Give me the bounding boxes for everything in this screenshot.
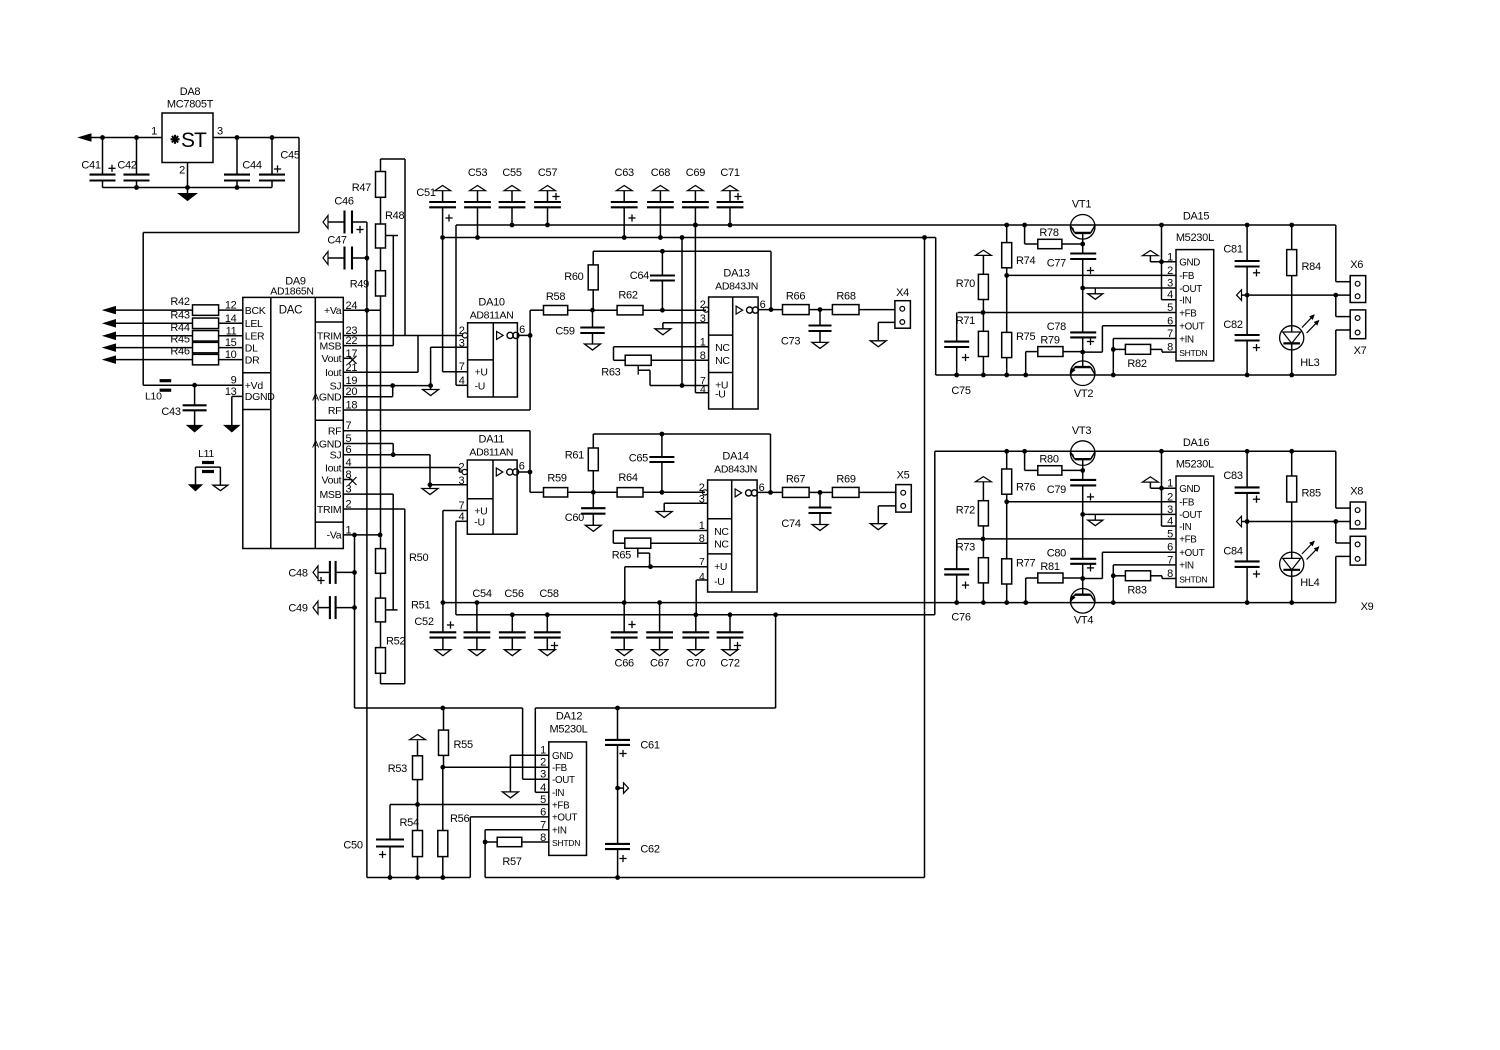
wire rail A to DA13 pin 4	[693, 223, 709, 393]
svg-text:L10: L10	[145, 391, 162, 403]
svg-text:LER: LER	[245, 331, 265, 343]
svg-text:AGND: AGND	[312, 392, 342, 404]
svg-text:SHTDN: SHTDN	[552, 838, 580, 848]
svg-text:C84: C84	[1223, 545, 1242, 557]
resistor R56	[438, 767, 470, 880]
capacitor C82	[1223, 295, 1260, 377]
node R59 R61 C60	[591, 490, 596, 495]
wire R48 tap to MSB22	[386, 236, 399, 346]
wire X9 pin 2 to bottom rail	[1336, 556, 1350, 602]
svg-text:R71: R71	[956, 315, 975, 327]
capacitor C81	[1223, 223, 1260, 298]
wire DA15 bottom rail from rail B	[936, 238, 1336, 376]
svg-text:SHTDN: SHTDN	[1179, 574, 1207, 584]
svg-text:AD1865N: AD1865N	[270, 286, 313, 298]
svg-text:C71: C71	[720, 167, 739, 179]
resistor R85	[1287, 449, 1321, 552]
capacitor C58	[534, 588, 561, 656]
svg-text:C83: C83	[1223, 470, 1242, 482]
capacitor C79	[1047, 480, 1096, 559]
svg-text:C78: C78	[1047, 321, 1066, 333]
wire DA15 pin 1 GND with arrow	[1142, 251, 1176, 265]
wire DA8 pin 3 output	[213, 137, 299, 139]
svg-text:R77: R77	[1016, 557, 1035, 569]
wire DA9 Iout pin 21 to DA10	[343, 336, 418, 373]
svg-text:C55: C55	[502, 167, 521, 179]
svg-text:MC7805T: MC7805T	[167, 99, 214, 111]
svg-text:4: 4	[699, 571, 705, 583]
net arrow at C61 C62 junction	[618, 783, 629, 794]
svg-text:Iout: Iout	[325, 367, 342, 379]
capacitor C73	[781, 310, 832, 349]
wire DA12 pin4 -IN feed	[535, 708, 549, 792]
wire DA16 pin 6 +OUT path	[1083, 552, 1176, 578]
svg-text:AGND: AGND	[312, 438, 342, 450]
svg-text:M5230L: M5230L	[1176, 458, 1214, 470]
svg-text:DA12: DA12	[556, 711, 582, 723]
svg-text:R66: R66	[786, 291, 805, 303]
resistor R73	[956, 539, 989, 605]
svg-text:4: 4	[459, 375, 465, 387]
capacitor C42	[108, 135, 149, 190]
wire DA12 pin6 +OUT to left bottom rail	[367, 817, 549, 878]
svg-text:-FB: -FB	[1179, 271, 1195, 282]
wire DA9 MSB pin 3 to R51 tap	[343, 494, 393, 610]
svg-text:C73: C73	[781, 336, 800, 348]
svg-text:C42: C42	[117, 160, 136, 172]
wire +5V route from DA8 pin3 to DAC +Vd	[143, 138, 299, 386]
IC DA16 M5230L	[1167, 437, 1214, 587]
resistor R62	[593, 290, 663, 315]
svg-text:C79: C79	[1047, 484, 1066, 496]
wire DA12 pin5 +FB line	[390, 802, 549, 807]
svg-text:C67: C67	[650, 658, 669, 670]
wire DA15 pin 4 -IN from top rail	[1159, 223, 1176, 300]
transistor VT1	[1070, 199, 1095, 240]
resistor R54	[400, 805, 423, 880]
wire bottom rail right segment	[485, 842, 924, 880]
IC DA12 M5230L	[540, 711, 587, 856]
svg-text:C43: C43	[161, 406, 180, 418]
svg-text:R58: R58	[546, 291, 565, 303]
DA9 pin name DR	[245, 354, 260, 366]
svg-text:R80: R80	[1039, 453, 1058, 465]
resistor R60	[564, 251, 598, 310]
svg-text:C57: C57	[538, 167, 557, 179]
svg-text:C68: C68	[651, 167, 670, 179]
connector X9	[1350, 536, 1373, 613]
wire DA9 Iout pin 4 to DA11 pin 2	[343, 468, 464, 473]
wire feedback DA13 to R60	[593, 249, 771, 310]
svg-text:C62: C62	[640, 844, 659, 856]
svg-text:R83: R83	[1127, 584, 1146, 596]
wire DA11 output node	[517, 431, 533, 493]
resistor R49	[350, 248, 386, 296]
svg-text:C63: C63	[615, 167, 634, 179]
svg-text:-FB: -FB	[552, 763, 568, 774]
capacitor C57	[534, 167, 561, 227]
svg-text:MSB: MSB	[319, 340, 341, 352]
svg-text:4: 4	[1167, 516, 1173, 528]
capacitor C72	[717, 612, 744, 669]
wire mid line to X8 with arrow	[1237, 516, 1351, 527]
DA9 pin name TRIM 2	[317, 499, 352, 516]
DA9 pin name LER	[245, 331, 265, 343]
svg-text:HL3: HL3	[1300, 357, 1319, 369]
DA9 Vout pin 8 stub with cross	[343, 477, 356, 485]
svg-text:-U: -U	[474, 517, 484, 529]
wire -OUT rail to -Va	[355, 706, 523, 711]
wire top rail to X6 pin 1	[1336, 225, 1350, 282]
resistor R71	[956, 313, 989, 378]
node R58 R60 C59	[590, 308, 595, 313]
svg-text:R67: R67	[786, 474, 805, 486]
svg-text:C81: C81	[1223, 244, 1242, 256]
capacitor C75	[944, 313, 971, 398]
wire +U rail B upper	[443, 235, 936, 240]
wire VT3 base lead	[1080, 459, 1085, 480]
svg-text:M5230L: M5230L	[1176, 232, 1214, 244]
wire DA12 pin2 -FB line	[440, 765, 548, 770]
svg-text:GND: GND	[552, 751, 573, 762]
DA9 pin name SJ 19	[330, 375, 358, 392]
wire DA9 TRIM pin 23 to DA10 pin 2	[343, 335, 465, 337]
DA9 pin 13 number	[225, 386, 237, 398]
svg-text:4: 4	[540, 782, 546, 794]
wire top rail to X8 pin 1	[1336, 451, 1350, 508]
capacitor C61	[605, 708, 660, 790]
transistor VT2	[1070, 361, 1095, 400]
wire DA15 pin 3 -OUT line with ground	[1083, 288, 1176, 299]
capacitor C78	[1047, 321, 1096, 367]
capacitor C65	[629, 434, 675, 495]
ground DGND at DA9 pin 13	[224, 396, 243, 432]
svg-text:3: 3	[1167, 504, 1173, 516]
svg-text:3: 3	[1167, 278, 1173, 290]
svg-text:R78: R78	[1039, 227, 1058, 239]
svg-text:6: 6	[519, 461, 525, 473]
svg-text:7: 7	[1167, 554, 1173, 566]
svg-text:AD811AN: AD811AN	[470, 310, 514, 322]
svg-text:DA13: DA13	[723, 268, 749, 280]
svg-text:C80: C80	[1047, 547, 1066, 559]
svg-text:NC: NC	[715, 342, 730, 354]
resistor R84	[1287, 223, 1321, 326]
svg-text:C77: C77	[1047, 258, 1066, 270]
capacitor C68	[647, 167, 674, 240]
svg-text:R79: R79	[1040, 335, 1059, 347]
capacitor C49	[288, 596, 357, 619]
svg-text:14: 14	[225, 313, 237, 325]
svg-text:R64: R64	[618, 472, 637, 484]
svg-text:C46: C46	[334, 196, 353, 208]
svg-text:11: 11	[226, 325, 237, 337]
svg-text:1: 1	[1167, 478, 1173, 490]
wire DA9 AGND pin 20	[343, 386, 392, 397]
DA9 pin name Iout 21	[325, 362, 357, 379]
capacitor C47	[323, 235, 369, 270]
svg-text:R70: R70	[956, 278, 975, 290]
resistor R68	[820, 291, 895, 315]
svg-text:BCK: BCK	[245, 305, 266, 317]
wire rail A lower corner to DA11 pin 4	[456, 521, 467, 615]
DA9 pin name AGND 20	[312, 386, 357, 403]
wire rail A lower to DA14 pin 4	[696, 580, 707, 615]
svg-text:R74: R74	[1016, 255, 1035, 267]
capacitor C62	[605, 788, 660, 877]
connector X7	[1350, 310, 1366, 357]
svg-text:DGND: DGND	[245, 391, 275, 403]
svg-text:DR: DR	[245, 354, 260, 366]
ground at DA8 pin 2	[179, 163, 197, 201]
svg-text:R68: R68	[836, 291, 855, 303]
DA9 pin name Vout 8	[321, 469, 351, 486]
wire R47 top rail to TRIM23	[381, 159, 406, 336]
resistor R57	[485, 837, 549, 868]
svg-text:VT1: VT1	[1072, 199, 1091, 211]
svg-text:6: 6	[1167, 315, 1173, 327]
svg-text:-U: -U	[475, 381, 485, 393]
svg-text:Iout: Iout	[325, 462, 342, 474]
wire -U rail A upper	[456, 224, 1336, 226]
svg-text:+Vd: +Vd	[245, 380, 264, 392]
wire input to DA8 pin 1 with arrow	[79, 134, 162, 141]
svg-text:R48: R48	[385, 210, 404, 222]
node R67 R69 C74	[818, 490, 823, 495]
resistor R69	[820, 474, 896, 498]
wire R64 to DA14 pin 2	[662, 491, 705, 493]
op-amp DA11 AD811AN	[458, 434, 524, 535]
wire DA9 SJ pin 19 node	[343, 383, 433, 388]
DA9 Vout pin 17 stub with cross	[343, 356, 356, 364]
svg-text:NC: NC	[714, 538, 729, 550]
resistor R51	[376, 573, 431, 622]
svg-text:RF: RF	[328, 426, 341, 438]
DA9 pin 9 number	[231, 375, 237, 387]
wire DA14 pin 8 to R65	[651, 542, 708, 544]
svg-text:6: 6	[540, 806, 546, 818]
wire mid common rail upper	[958, 310, 1176, 315]
resistor R61	[565, 434, 599, 492]
DA9 pin name DL	[245, 342, 258, 354]
wire SJ6 node to DA11 pin3 with ground	[422, 455, 467, 495]
resistor R74	[1002, 223, 1036, 278]
svg-text:10: 10	[225, 349, 237, 361]
DA9 pin name LEL	[245, 318, 263, 330]
svg-text:R55: R55	[454, 739, 473, 751]
svg-text:R52: R52	[386, 636, 405, 648]
svg-text:R65: R65	[612, 550, 631, 562]
capacitor C76	[944, 539, 971, 624]
wire DA10 output node	[517, 310, 532, 410]
wire DA9 -Va pin 1	[343, 533, 382, 538]
wire rail B down to bottom rail	[924, 238, 926, 878]
svg-text:X8: X8	[1350, 485, 1363, 497]
resistor R70 with arrow	[956, 250, 992, 312]
svg-text:+OUT: +OUT	[1179, 322, 1205, 333]
capacitor C59	[555, 310, 604, 350]
svg-text:AD843JN: AD843JN	[715, 281, 758, 293]
wire C52 column to DA11 pin 7	[443, 511, 467, 603]
svg-text:M5230L: M5230L	[550, 724, 588, 736]
svg-text:RF: RF	[328, 405, 341, 417]
resistor R83	[1113, 571, 1176, 597]
wire -IN rail from rail A lower	[535, 612, 778, 710]
svg-text:R47: R47	[352, 182, 371, 194]
resistor R53 with arrow	[388, 735, 426, 805]
svg-text:C61: C61	[640, 740, 659, 752]
svg-text:DA8: DA8	[180, 86, 201, 98]
wire X7 pin 2 to bottom rail	[1336, 330, 1350, 375]
wire DA15 pin 6 +OUT path	[1083, 326, 1176, 352]
wire -Va vertical x=354.5	[354, 535, 356, 708]
svg-text:R42: R42	[170, 296, 189, 308]
svg-text:HL4: HL4	[1300, 577, 1319, 589]
transistor VT4	[1070, 589, 1095, 627]
wire R52 bottom to TRIM2 line	[381, 673, 405, 684]
wire R65 wiper join +U feed	[648, 553, 653, 569]
resistor R55	[439, 708, 473, 767]
DA9 pin name RF 18	[328, 400, 357, 417]
svg-text:+OUT: +OUT	[1179, 548, 1205, 559]
svg-text:DA16: DA16	[1183, 437, 1209, 449]
svg-text:+FB: +FB	[1179, 308, 1197, 319]
capacitor C45	[259, 135, 300, 187]
svg-text:+OUT: +OUT	[552, 813, 578, 824]
resistor R43 input	[104, 309, 243, 328]
svg-text:TRIM: TRIM	[317, 504, 341, 516]
svg-text:R59: R59	[547, 473, 566, 485]
svg-text:3: 3	[700, 313, 706, 325]
svg-text:C59: C59	[555, 326, 574, 338]
svg-text:-IN: -IN	[1179, 296, 1191, 307]
node R66 R68 C73	[818, 307, 823, 312]
op-amp DA10 AD811AN	[459, 297, 525, 398]
trimmer resistor R63	[601, 355, 651, 378]
svg-text:8: 8	[540, 832, 546, 844]
DA9 pin name BCK	[245, 305, 266, 317]
svg-text:C75: C75	[951, 385, 970, 397]
wire +U rail B lower	[443, 602, 1336, 604]
wire DA13 output node	[758, 307, 782, 312]
svg-text:X9: X9	[1361, 601, 1374, 613]
DA9 pin name Vout 17	[321, 348, 357, 365]
svg-text:DA15: DA15	[1183, 211, 1209, 223]
svg-text:C74: C74	[781, 518, 800, 530]
svg-text:R44: R44	[170, 322, 189, 334]
svg-text:R60: R60	[564, 271, 583, 283]
wire HL3 to bottom rail	[1289, 350, 1294, 378]
svg-text:VT2: VT2	[1074, 388, 1093, 400]
svg-text:C66: C66	[615, 658, 634, 670]
capacitor C84	[1223, 522, 1260, 605]
DA9 pin name DGND	[245, 391, 275, 403]
resistor R45 input	[104, 334, 243, 353]
capacitor C51	[416, 186, 456, 240]
resistor R77	[1002, 502, 1036, 605]
svg-text:R43: R43	[170, 309, 189, 321]
svg-text:C64: C64	[630, 270, 649, 282]
svg-text:1: 1	[540, 745, 546, 757]
wire VT1 base lead	[1080, 233, 1085, 254]
svg-text:7: 7	[1167, 328, 1173, 340]
svg-text:6: 6	[1167, 542, 1173, 554]
svg-text:R57: R57	[502, 856, 521, 868]
connector X4	[895, 287, 911, 328]
inductor L10	[143, 381, 243, 403]
resistor R42 input	[104, 296, 243, 315]
wire feedback DA14 to R61	[593, 432, 770, 493]
capacitor C41	[81, 135, 115, 187]
svg-text:NC: NC	[715, 355, 730, 367]
wire DA9 MSB pin 22	[343, 345, 393, 347]
capacitor C69	[682, 167, 709, 227]
resistor R75	[1002, 275, 1036, 377]
wire DA12 pin1 GND to ground	[502, 755, 548, 798]
svg-text:DL: DL	[245, 342, 258, 354]
wire R63 wiper to +U feed	[650, 370, 709, 388]
svg-text:3: 3	[459, 338, 465, 350]
resistor R72 with arrow	[956, 477, 992, 539]
svg-text:C51: C51	[416, 187, 435, 199]
op-amp DA14 AD843JN	[699, 451, 765, 593]
DA9 pin name +Vd	[245, 380, 264, 392]
svg-text:C41: C41	[81, 160, 100, 172]
svg-text:R54: R54	[400, 817, 419, 829]
capacitor C46	[323, 196, 367, 234]
LED HL4	[1280, 542, 1320, 590]
svg-text:-IN: -IN	[552, 788, 564, 799]
resistor R64	[593, 472, 662, 497]
op-amp DA13 AD843JN	[700, 268, 766, 410]
resistor R81	[1023, 561, 1082, 605]
svg-text:4: 4	[458, 511, 464, 523]
resistor R52	[376, 622, 406, 673]
resistor R78	[1022, 223, 1083, 249]
wire DA16 pin 3 -OUT line with ground	[1083, 514, 1176, 525]
wire DA16 pin 4 -IN from top rail	[1159, 449, 1176, 526]
wire DA14 output node	[758, 490, 782, 495]
wire +Va supply vertical x=367	[365, 222, 370, 878]
svg-text:AD843JN: AD843JN	[714, 464, 757, 476]
svg-text:VT4: VT4	[1074, 614, 1093, 626]
DA9 pin name TRIM 23	[317, 325, 357, 342]
svg-text:C58: C58	[539, 588, 558, 600]
capacitor C80	[1047, 547, 1096, 594]
svg-text:DA11: DA11	[479, 434, 505, 446]
resistor R59	[530, 473, 593, 498]
trimmer resistor R65	[612, 538, 651, 561]
resistor R80	[1022, 449, 1083, 475]
ground at DA13 pin 3	[655, 323, 709, 335]
svg-text:+FB: +FB	[1179, 535, 1197, 546]
svg-text:R82: R82	[1127, 358, 1146, 370]
regulator DA8 MC7805T	[151, 86, 223, 177]
capacitor C43	[161, 383, 206, 432]
svg-text:GND: GND	[1179, 258, 1200, 269]
svg-text:3: 3	[217, 126, 223, 138]
ground at X4 pin 2	[870, 322, 895, 346]
capacitor C48	[288, 561, 357, 584]
svg-text:VT3: VT3	[1072, 425, 1091, 437]
transistor VT3	[1070, 425, 1095, 466]
svg-text:R72: R72	[956, 504, 975, 516]
svg-text:DA14: DA14	[722, 451, 748, 463]
wire DA16 top rail	[935, 450, 1336, 452]
svg-text:ST: ST	[181, 129, 207, 152]
wire HL4 to bottom rail	[1289, 576, 1294, 605]
wire bottom rail of C41-C45	[103, 187, 273, 189]
